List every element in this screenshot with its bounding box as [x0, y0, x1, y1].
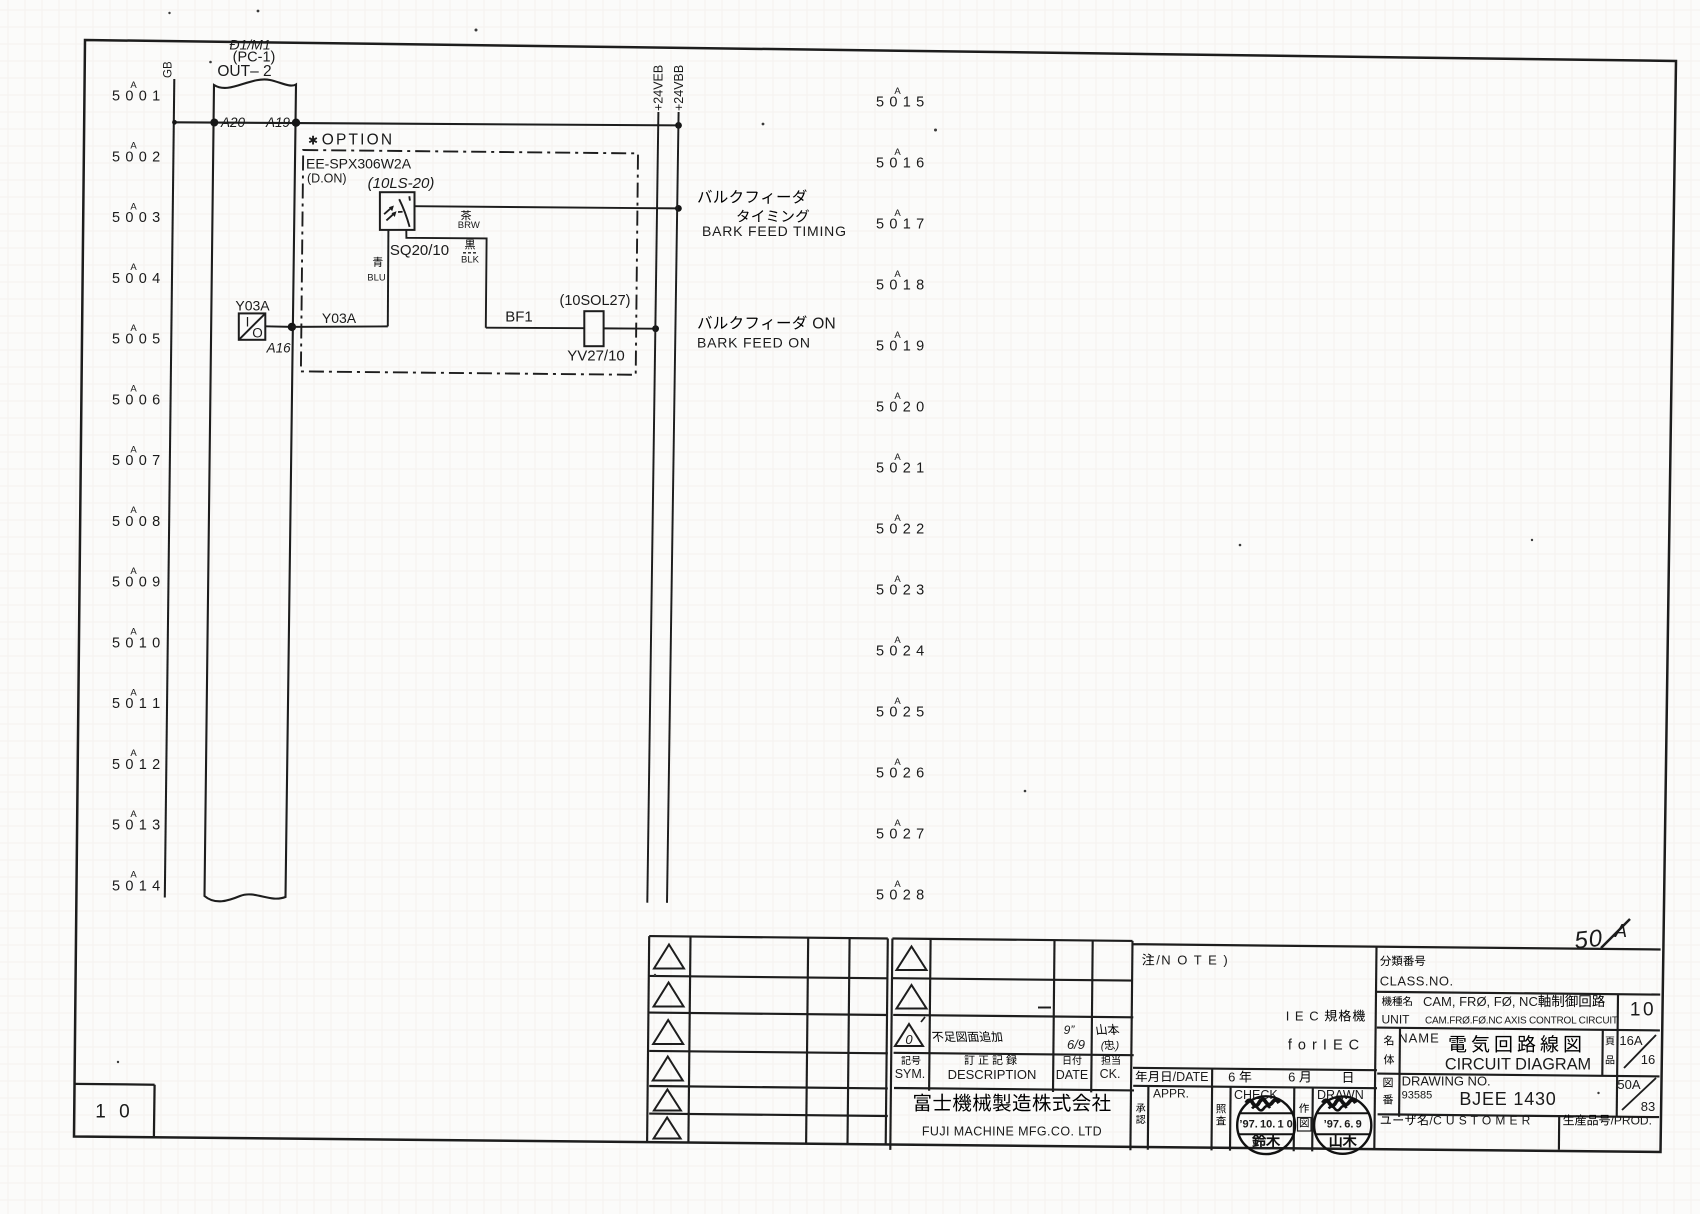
svg-text:10: 10 — [1630, 1000, 1656, 1021]
label 名 — [1384, 1035, 1393, 1045]
svg-text:BLK: BLK — [461, 255, 480, 266]
svg-text:/C U S T O M E R: /C U S T O M E R — [1429, 1114, 1530, 1128]
revision triangle mark 3 — [653, 1020, 683, 1044]
wire A19 to +24VBB rail — [174, 122, 679, 125]
header row SYM / DESCRIPTION / DATE / CK — [901, 1056, 910, 1065]
connector cable D1/M1 (PC-1) OUT-2 : torn vertical strip — [205, 79, 297, 901]
label 青 (blue) — [373, 257, 383, 267]
svg-text:/DATE: /DATE — [1173, 1070, 1209, 1084]
svg-text:A: A — [130, 201, 137, 212]
svg-text:/N O T E ): /N O T E ) — [1156, 953, 1229, 968]
label 品 — [1606, 1056, 1614, 1065]
label 分類番号 — [1380, 956, 1391, 966]
approval stamp 鈴木 97.10.10 — [1237, 1096, 1295, 1154]
svg-text:BF1: BF1 — [505, 309, 533, 326]
svg-text:5 0 1 9: 5 0 1 9 — [876, 339, 925, 355]
svg-text:A: A — [894, 696, 901, 707]
svg-text:A: A — [894, 391, 901, 402]
svg-text:A: A — [894, 208, 901, 219]
sensor dash mark — [398, 211, 403, 213]
stray pen dash — [1038, 1007, 1051, 1009]
svg-text:APPR.: APPR. — [1153, 1087, 1189, 1101]
label 体 — [1384, 1054, 1394, 1064]
svg-text:A: A — [130, 748, 137, 759]
handwritten sheet mark 50A — [1573, 925, 1604, 955]
label 生産品号/PROD. — [1563, 1114, 1574, 1125]
svg-text:UNIT: UNIT — [1382, 1013, 1411, 1027]
svg-text:6/9: 6/9 — [1067, 1037, 1085, 1052]
pin A19 — [292, 119, 300, 127]
label ユーザ名/CUSTOMER — [1381, 1116, 1391, 1123]
svg-text:EE-SPX306W2A: EE-SPX306W2A — [306, 156, 412, 172]
svg-text:A: A — [1614, 921, 1627, 941]
solenoid coil YV27/10 (10SOL27) — [584, 311, 603, 346]
wire sensor BRW to +24VBB (bark feed timing) — [415, 206, 679, 208]
label 注/NOTE — [1142, 954, 1154, 966]
revision triangle mark 1 — [654, 945, 684, 969]
svg-text:A: A — [894, 330, 901, 341]
revision history table (right block with entries) — [892, 939, 1132, 941]
label 査 — [1216, 1116, 1226, 1125]
sheet number box 10 (bottom left) — [75, 1083, 155, 1086]
svg-text:CHECK: CHECK — [1234, 1088, 1278, 1102]
svg-text:6: 6 — [1288, 1070, 1299, 1085]
svg-text:CAM.FRØ.FØ.NC AXIS CONTROL CIR: CAM.FRØ.FØ.NC AXIS CONTROL CIRCUIT — [1425, 1016, 1618, 1027]
svg-text:A: A — [130, 323, 137, 334]
svg-text:NAME: NAME — [1398, 1031, 1440, 1046]
svg-text:0: 0 — [905, 1032, 913, 1047]
label タイミング — [737, 210, 748, 222]
wire sensor BLU down — [387, 230, 390, 327]
svg-text:A: A — [894, 879, 901, 890]
svg-text:’97. 10. 1 0: ’97. 10. 1 0 — [1239, 1119, 1292, 1131]
pin A16 — [288, 323, 296, 331]
label 電気回路線図 — [1449, 1036, 1466, 1053]
svg-text:9”: 9” — [1064, 1023, 1076, 1037]
svg-text:50A: 50A — [1617, 1077, 1640, 1092]
revision triangle 0 (entry) — [895, 1024, 923, 1046]
svg-text:A: A — [130, 444, 137, 455]
svg-text:O: O — [252, 326, 263, 341]
svg-text:5 0 2 0: 5 0 2 0 — [876, 400, 925, 416]
wire I/O box to A16 — [265, 325, 292, 328]
svg-text:BLU: BLU — [367, 273, 386, 284]
svg-text:5 0 1 4: 5 0 1 4 — [112, 878, 161, 894]
title block frame — [1133, 944, 1661, 949]
svg-text:CIRCUIT DIAGRAM: CIRCUIT DIAGRAM — [1445, 1056, 1591, 1074]
label 番 — [1383, 1094, 1393, 1104]
svg-text:5 0 0 2: 5 0 0 2 — [112, 149, 161, 165]
wire +24VEB rail — [647, 112, 658, 903]
sensor contact curve — [399, 199, 409, 227]
svg-text:A16: A16 — [266, 341, 292, 356]
svg-text:5 0 1 1: 5 0 1 1 — [112, 696, 161, 712]
svg-text:5 0 2 3: 5 0 2 3 — [876, 583, 925, 599]
label 年月日/DATE — [1136, 1070, 1147, 1082]
label 作 — [1299, 1103, 1309, 1113]
pin A20 — [210, 119, 218, 127]
svg-text:BRW: BRW — [458, 220, 480, 231]
svg-text:50: 50 — [1573, 925, 1604, 955]
approval stamp 山本 97.6.9 — [1314, 1097, 1371, 1154]
revision triangle mark — [897, 985, 927, 1009]
svg-text:A19: A19 — [265, 115, 291, 130]
svg-text:+24VEB: +24VEB — [652, 65, 666, 111]
label バルクフィーダ — [698, 190, 712, 203]
svg-text:83: 83 — [1641, 1099, 1655, 1114]
svg-text:A: A — [894, 818, 901, 829]
svg-text:5 0 0 4: 5 0 0 4 — [112, 271, 161, 287]
svg-text:5 0 1 8: 5 0 1 8 — [876, 278, 925, 294]
svg-text:5 0 2 1: 5 0 2 1 — [876, 461, 925, 477]
svg-text:5 0 1 3: 5 0 1 3 — [112, 818, 161, 834]
svg-text:GB: GB — [163, 61, 175, 78]
svg-text:CK.: CK. — [1100, 1067, 1121, 1081]
svg-text:5 0 0 6: 5 0 0 6 — [112, 392, 161, 408]
svg-text:Y03A: Y03A — [322, 310, 357, 326]
svg-text:5 0 0 8: 5 0 0 8 — [112, 514, 161, 530]
svg-text:A: A — [894, 574, 901, 585]
svg-text:5 0 2 8: 5 0 2 8 — [876, 888, 925, 904]
page slash — [1624, 1035, 1656, 1068]
svg-text:BJEE 1430: BJEE 1430 — [1459, 1089, 1556, 1109]
svg-text:16A: 16A — [1619, 1033, 1642, 1048]
svg-text:5 0 2 4: 5 0 2 4 — [876, 644, 925, 660]
svg-text:A: A — [894, 86, 901, 97]
handwritten revision note 不足図面追加 — [932, 1032, 944, 1042]
svg-text:A: A — [130, 809, 137, 820]
svg-text:’97. 6. 9: ’97. 6. 9 — [1324, 1119, 1362, 1131]
svg-text:(10SOL27): (10SOL27) — [560, 293, 631, 309]
svg-text:I E C: I E C — [1286, 1009, 1325, 1024]
handwritten name 山本 — [1096, 1024, 1107, 1035]
junction on GB bus — [172, 120, 177, 125]
revision triangle mark — [897, 947, 927, 971]
svg-text:SQ20/10: SQ20/10 — [390, 242, 449, 259]
label 機種名 — [1382, 996, 1392, 1006]
svg-text:5 0 1 5: 5 0 1 5 — [876, 95, 925, 111]
svg-text:BARK FEED TIMING: BARK FEED TIMING — [702, 223, 847, 239]
svg-text:/PROD.: /PROD. — [1611, 1114, 1652, 1128]
svg-text:CAM, FRØ, FØ, NC: CAM, FRØ, FØ, NC — [1423, 994, 1538, 1009]
label 黒 (black) — [465, 240, 475, 250]
svg-text:A: A — [130, 627, 137, 638]
svg-text:DRAWING NO.: DRAWING NO. — [1402, 1074, 1491, 1089]
svg-text:DESCRIPTION: DESCRIPTION — [948, 1067, 1037, 1082]
label 図 — [1383, 1078, 1392, 1088]
svg-text:✱: ✱ — [308, 134, 318, 148]
label 照 — [1216, 1104, 1226, 1113]
label 富士機械製造株式会社 — [914, 1094, 930, 1112]
svg-text:5 0 1 7: 5 0 1 7 — [876, 217, 925, 233]
wire BF1 to solenoid coil — [486, 327, 585, 330]
svg-text:A: A — [130, 687, 137, 698]
svg-text:5 0 2 6: 5 0 2 6 — [876, 766, 925, 782]
svg-text:A: A — [130, 80, 137, 91]
underline dashes — [463, 252, 477, 254]
photoelectric sensor SQ20/10 (10LS-20) — [380, 192, 415, 230]
label バルクフィーダ ON — [698, 316, 712, 329]
label 頁 — [1605, 1037, 1614, 1046]
date 日 — [1344, 1072, 1353, 1083]
label 認 — [1136, 1115, 1145, 1124]
svg-text:A: A — [894, 147, 901, 158]
svg-text:6: 6 — [1228, 1070, 1239, 1085]
svg-text:A: A — [130, 262, 137, 273]
wire GB bus vertical — [165, 79, 175, 898]
revision history table (left block) — [649, 936, 888, 938]
svg-text:SYM.: SYM. — [895, 1067, 926, 1081]
OPTION dashed-dot enclosure box — [301, 150, 638, 375]
PLC output module Y03A (I/O box) — [239, 313, 265, 339]
svg-text:93585: 93585 — [1402, 1090, 1433, 1102]
svg-text:A20: A20 — [220, 115, 246, 130]
svg-text:+24VBB: +24VBB — [672, 65, 686, 111]
svg-text:A: A — [130, 384, 137, 395]
wire +24VBB rail — [667, 112, 679, 903]
wire sensor BLK down-right to BF1 — [406, 230, 486, 328]
svg-text:I: I — [246, 315, 250, 330]
svg-text:5 0 0 9: 5 0 0 9 — [112, 575, 161, 591]
svg-text:YV27/10: YV27/10 — [567, 348, 625, 365]
svg-text:5 0 2 2: 5 0 2 2 — [876, 522, 925, 538]
label 承 — [1136, 1104, 1145, 1113]
svg-text:5 0 0 3: 5 0 0 3 — [112, 210, 161, 226]
svg-text:1 0: 1 0 — [95, 1102, 133, 1123]
wire Y03A to BLU — [292, 325, 388, 328]
svg-text:5 0 0 7: 5 0 0 7 — [112, 453, 161, 469]
svg-text:A: A — [894, 269, 901, 280]
wire coil to +24VEB — [604, 327, 656, 329]
junction on +24VBB — [675, 122, 682, 129]
svg-text:BARK FEED ON: BARK FEED ON — [697, 335, 811, 351]
revision triangle mark 2 — [654, 983, 684, 1007]
svg-text:OPTION: OPTION — [322, 132, 395, 149]
svg-text:A: A — [130, 505, 137, 516]
svg-text:f o r I E C: f o r I E C — [1288, 1038, 1360, 1054]
svg-text:5 0 2 7: 5 0 2 7 — [876, 827, 925, 843]
svg-text:A: A — [130, 566, 137, 577]
date and approval block — [1133, 1068, 1377, 1070]
junction on +24VBB — [675, 205, 682, 212]
sheet slash — [1622, 1078, 1656, 1110]
svg-text:A: A — [894, 513, 901, 524]
scan specks (decorative) — [934, 129, 937, 132]
revision triangle mark 5 — [654, 1090, 681, 1111]
svg-text:A: A — [894, 452, 901, 463]
svg-text:Y03A: Y03A — [235, 298, 270, 314]
svg-text:DATE: DATE — [1056, 1068, 1088, 1082]
svg-text:A: A — [130, 141, 137, 152]
svg-text:A: A — [894, 757, 901, 768]
svg-text:(D.ON): (D.ON) — [307, 172, 347, 186]
I/O box diagonal — [239, 314, 264, 339]
svg-text:5 0 1 0: 5 0 1 0 — [112, 635, 161, 651]
sensor light arrows — [384, 208, 392, 215]
svg-text:OUT– 2: OUT– 2 — [217, 63, 271, 80]
svg-text:16: 16 — [1641, 1052, 1655, 1067]
svg-text:(10LS-20): (10LS-20) — [368, 175, 435, 192]
label 図 — [1300, 1118, 1309, 1127]
svg-text:CLASS.NO.: CLASS.NO. — [1380, 974, 1454, 989]
revision triangle mark 4 — [653, 1057, 683, 1081]
junction on +24VEB — [652, 325, 659, 332]
svg-text:5 0 2 5: 5 0 2 5 — [876, 705, 925, 721]
svg-text:5 0 0 1: 5 0 0 1 — [112, 89, 161, 105]
svg-text:5 0 1 6: 5 0 1 6 — [876, 156, 925, 172]
revision triangle mark 6 — [654, 1118, 681, 1139]
svg-text:A: A — [894, 635, 901, 646]
svg-text:A: A — [130, 870, 137, 881]
svg-text:5 0 1 2: 5 0 1 2 — [112, 757, 161, 773]
svg-text:FUJI MACHINE MFG.CO. LTD: FUJI MACHINE MFG.CO. LTD — [922, 1125, 1102, 1139]
label 茶 (brown) — [461, 210, 471, 220]
svg-text:ON: ON — [808, 316, 836, 333]
sensor pin tick — [408, 196, 411, 200]
svg-text:5 0 0 5: 5 0 0 5 — [112, 332, 161, 348]
